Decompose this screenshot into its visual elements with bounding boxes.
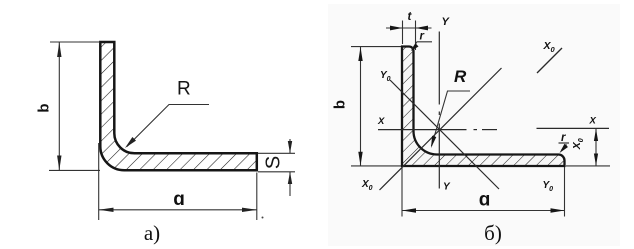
svg-text:R: R — [454, 67, 467, 86]
arrow t right — [416, 26, 429, 31]
small tick — [262, 217, 264, 219]
extension line S bottom — [258, 171, 295, 173]
extension line t right — [415, 21, 417, 51]
leader r top — [412, 42, 432, 50]
svg-text:b: b — [36, 103, 53, 112]
Y0 principal axis diagonal — [390, 80, 499, 189]
arrow b bottom (drawing b) — [358, 152, 362, 166]
X0 detached segment top right — [537, 48, 562, 73]
arrow S top — [288, 141, 292, 153]
arrow x0 top — [594, 129, 598, 141]
X axis right segment — [537, 127, 610, 129]
svg-text:R: R — [177, 79, 191, 100]
arrow a left (drawing b) — [402, 208, 416, 212]
arrow t left — [390, 26, 403, 31]
extension line b bottom (drawing b) — [351, 165, 401, 167]
svg-text:ɑ: ɑ — [479, 190, 491, 211]
extension line t left — [402, 21, 404, 45]
svg-text:r: r — [420, 31, 425, 43]
extension line x0 bottom — [566, 165, 610, 167]
svg-text:X: X — [377, 116, 385, 127]
svg-text:S: S — [263, 156, 285, 169]
arrow R leader (drawing b) — [431, 136, 436, 148]
leader r right — [559, 142, 570, 144]
arrow a right (drawing b) — [551, 208, 565, 212]
Y axis — [438, 32, 440, 105]
dimension line S upper — [289, 139, 291, 153]
svg-text:ɑ: ɑ — [173, 189, 185, 210]
angle profile section (a) — [100, 42, 256, 170]
leader R (drawing b) — [432, 91, 471, 146]
extension line bottom (b) — [49, 169, 100, 171]
X axis left segment — [378, 129, 440, 131]
arrow a right — [242, 208, 257, 212]
leader R — [127, 105, 209, 147]
arrow b top (drawing b) — [358, 47, 362, 61]
svg-text:а): а) — [144, 221, 160, 245]
arrow S bottom — [288, 172, 292, 184]
dimension line b — [58, 42, 60, 170]
dimension line S lower — [289, 172, 291, 196]
extension line S top — [258, 152, 295, 154]
X0 principal axis diagonal — [380, 68, 502, 190]
arrow x0 bottom — [594, 154, 598, 166]
extension line a right — [256, 173, 258, 221]
extension line a left (drawing b) — [401, 168, 403, 217]
arrow a left — [99, 208, 114, 212]
arrow r right — [560, 144, 569, 153]
extension line a right (drawing b) — [564, 167, 566, 217]
extension line top (b) — [50, 41, 100, 43]
dimension line x0 — [595, 129, 597, 166]
arrow R leader — [125, 137, 136, 148]
angle profile section (b) — [402, 47, 565, 167]
arrow b top — [57, 42, 61, 57]
dimension line a — [99, 209, 257, 211]
dimension line t — [386, 27, 432, 29]
arrow b bottom — [57, 156, 61, 171]
svg-text:б): б) — [484, 221, 502, 245]
X axis dash-dot right — [440, 129, 467, 131]
extension line b top (drawing b) — [351, 46, 401, 48]
svg-text:b: b — [332, 100, 349, 109]
svg-text:X: X — [589, 116, 597, 127]
dimension line a (drawing b) — [402, 210, 565, 212]
arrow r top — [411, 43, 419, 51]
dimension line b (drawing b) — [360, 47, 362, 166]
extension line a left — [98, 143, 100, 220]
svg-text:r: r — [561, 132, 566, 144]
